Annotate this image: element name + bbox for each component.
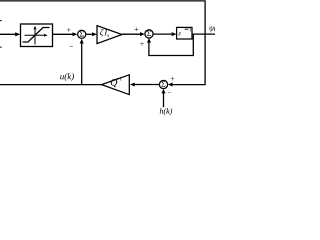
left edge tick upper [0, 20, 2, 22]
arrowhead into saturation block [15, 32, 20, 36]
wire feedback into S3 [171, 84, 206, 86]
wire S1 to gain triangle [86, 33, 94, 35]
saturation symbol vertical axis [34, 28, 36, 45]
left edge tick lower [0, 46, 2, 48]
summing junction S1 [78, 30, 86, 38]
label zeta [100, 29, 104, 37]
label h(k) [160, 108, 172, 115]
superscript 1 [189, 28, 191, 32]
summing junction S3 [159, 80, 167, 88]
arrowhead up into S3 bottom [162, 89, 166, 94]
wire input line [0, 33, 17, 35]
arrowhead into gain triangle [92, 32, 97, 36]
arrowhead up into S1 bottom [80, 39, 84, 44]
plus sign S3 right input [171, 77, 175, 81]
saturation symbol horizontal axis [25, 34, 45, 36]
label I [104, 30, 107, 36]
label subscript s [107, 35, 109, 38]
arrowhead into delay block [172, 32, 177, 36]
wire S2 to delay block [153, 33, 173, 35]
superscript 1 [120, 77, 122, 81]
label z [178, 32, 181, 35]
superscript minus [116, 78, 119, 80]
wire delay block output [192, 33, 215, 35]
arrowhead left into S3 [168, 83, 173, 87]
arrowhead into S2 [140, 32, 145, 36]
label u(k) [60, 73, 74, 81]
arrowhead into S1 [73, 32, 78, 36]
saturation block N1 [21, 24, 53, 47]
plus sign S2 bottom input [140, 42, 144, 46]
wire top feedback line [0, 0, 205, 2]
arrowhead left into inverse gain triangle base [130, 83, 135, 87]
wire saturation block to summing junction S1 [53, 33, 75, 35]
plus sign S1 left input [67, 28, 71, 32]
superscript minus [185, 28, 189, 30]
wire gain triangle to summing junction S2 [122, 33, 142, 35]
arrowhead up into S2 bottom [147, 38, 151, 43]
gain triangle zeta Is [97, 26, 122, 44]
wire right vertical feedback [204, 0, 206, 84]
minus sign S1 bottom input [69, 45, 73, 47]
saturation symbol curve [23, 28, 50, 43]
inverse gain triangle Q^-1 [102, 75, 130, 95]
output label psi(k) [209, 25, 220, 32]
wire S3 to inverse gain triangle [133, 84, 160, 86]
delay block z^-1 [177, 27, 192, 39]
plus sign S2 left input [135, 27, 139, 31]
label Q [111, 79, 117, 87]
wire accumulator feedback loop [149, 34, 193, 55]
wire bottom output line [0, 84, 102, 86]
wire u(k) feedback drop [81, 42, 83, 85]
wire h(k) input [163, 92, 165, 108]
summing junction S2 [145, 30, 153, 38]
minus sign S3 bottom input [168, 91, 171, 93]
